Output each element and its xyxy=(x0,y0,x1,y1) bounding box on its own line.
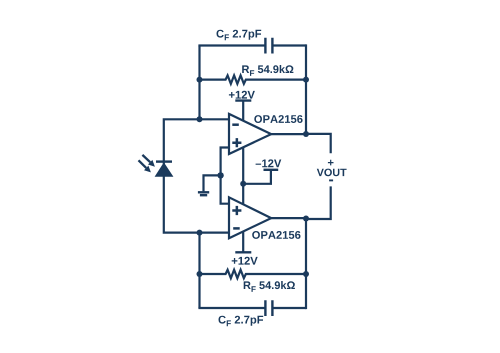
node bottom RF left xyxy=(197,271,203,277)
node bottom inverting input xyxy=(197,230,203,236)
wire left rail bottom segment xyxy=(198,233,200,308)
supply bar +12V top xyxy=(235,99,251,101)
wire +12V supply pin top op-amp xyxy=(242,101,244,121)
label OPA2156 bottom xyxy=(252,231,300,239)
op-amp U1B plus mark xyxy=(232,206,241,215)
node noninverting bracket xyxy=(217,172,223,178)
node top output xyxy=(303,131,309,137)
wire op-amp output bottom xyxy=(271,217,306,219)
label -12V xyxy=(256,159,282,167)
wire photodiode loop xyxy=(164,119,200,232)
wire +12V supply pin bottom op-amp xyxy=(242,231,244,252)
wire + resistor R_F bottom xyxy=(200,270,307,278)
supply bar -12V xyxy=(264,169,279,171)
wire right rail top segment xyxy=(305,44,307,133)
wire right rail bottom segment xyxy=(305,219,307,309)
label CF bottom value xyxy=(219,316,264,327)
capacitor C_F bottom xyxy=(265,300,272,316)
wire op-amp output top xyxy=(271,133,306,135)
wire shared negative supply pins xyxy=(242,148,244,205)
photodiode D1 triangle xyxy=(156,163,173,176)
label +12V bottom xyxy=(232,257,258,265)
node top RF right xyxy=(303,77,309,83)
ground xyxy=(198,192,209,195)
node top inverting input xyxy=(197,116,203,122)
label RF bottom value xyxy=(244,281,295,292)
op-amp U1B triangle xyxy=(229,197,271,238)
wire noninverting bracket xyxy=(221,148,229,204)
label VOUT xyxy=(317,169,347,177)
label VOUT plus xyxy=(328,160,334,166)
wire top inverting input xyxy=(200,118,230,120)
label CF top value xyxy=(217,30,262,41)
label VOUT minus xyxy=(329,179,333,181)
wire + resistor R_F top xyxy=(200,75,307,83)
wire left rail top segment xyxy=(198,46,200,120)
wire bottom CF rail xyxy=(198,307,306,309)
wire VOUT plus branch xyxy=(306,134,331,153)
wire VOUT minus branch xyxy=(306,186,331,219)
node bottom output xyxy=(303,216,309,222)
wire bottom inverting input xyxy=(200,232,230,234)
supply bar +12V bottom xyxy=(235,251,251,253)
op-amp U1A triangle xyxy=(229,114,271,154)
node negative supply xyxy=(240,181,246,187)
label RF top value xyxy=(242,65,293,76)
wire -12V branch xyxy=(243,170,271,184)
capacitor C_F top xyxy=(265,38,272,54)
label OPA2156 top xyxy=(254,115,302,123)
op-amp U1A plus mark xyxy=(232,138,241,147)
node top RF left xyxy=(197,77,203,83)
op-amp U1B minus mark xyxy=(233,227,240,230)
label +12V top xyxy=(229,91,255,99)
node bottom RF right xyxy=(303,271,309,277)
wire ground branch xyxy=(204,175,221,191)
light arrow 2 xyxy=(139,160,151,172)
light arrow 1 xyxy=(142,155,155,167)
op-amp U1A minus mark xyxy=(232,123,239,126)
photodiode D1 cathode bar xyxy=(156,160,172,162)
wire top CF rail xyxy=(198,44,306,46)
